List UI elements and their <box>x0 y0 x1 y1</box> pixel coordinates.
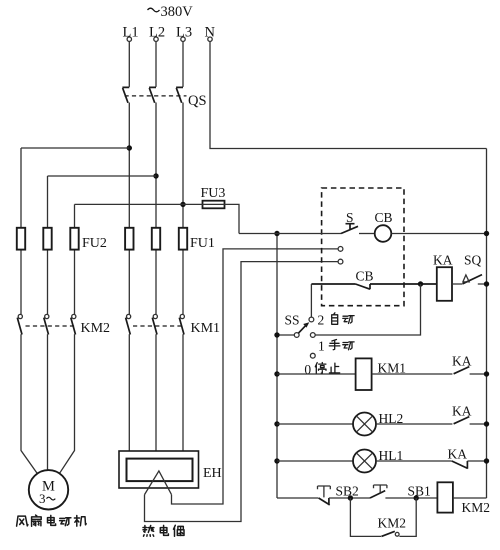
wire tap L2 to left branch <box>48 175 157 177</box>
svg-text:SB2: SB2 <box>336 484 359 499</box>
switch QS pole 1 <box>122 87 129 102</box>
contact KM2 self-hold branch <box>350 498 416 536</box>
wire tap L1 to left branch <box>21 147 129 149</box>
wire control right rail <box>486 149 488 499</box>
contact KA NC <box>452 461 487 469</box>
svg-text:KM2: KM2 <box>81 321 111 336</box>
indicator CB circle <box>359 225 487 242</box>
coil KM2 <box>437 482 453 512</box>
wire thermocouple left lead to CB terminal 2 <box>145 262 339 522</box>
node N <box>205 25 216 42</box>
node dot SQ at right rail <box>484 281 489 286</box>
switch S <box>341 210 358 234</box>
heater EH outer box <box>119 451 199 488</box>
terminal SS position 2 <box>309 317 314 322</box>
contact CB thermostat <box>311 284 437 289</box>
wire thermocouple right lead to CB terminal 1 <box>172 249 339 504</box>
button SB2 stop <box>318 486 331 505</box>
node dot rail KM1 rung <box>274 371 279 376</box>
fuse FU2 b <box>43 228 51 250</box>
label 1 手动 <box>318 339 354 354</box>
wire KM2 coil to right rail <box>453 497 487 499</box>
contactor KM1 main pole 1 <box>126 314 131 334</box>
wire left branch 2 vertical <box>47 176 49 470</box>
node dot KM1 rung right rail <box>484 371 489 376</box>
wire bottom rung left <box>277 497 318 499</box>
wire HL1 rung left <box>277 460 353 462</box>
svg-text:QS: QS <box>188 93 207 109</box>
fuse FU2 c <box>70 228 78 250</box>
svg-text:FU1: FU1 <box>190 236 215 251</box>
switch QS pole 3 <box>176 87 183 102</box>
node dot feed/left rail <box>274 231 279 236</box>
node dot S rung at right rail <box>484 231 489 236</box>
switch QS pole 2 <box>149 87 156 102</box>
dashed enclosure CB controller <box>322 188 404 306</box>
fuse FU1 c <box>179 228 187 250</box>
node dot L3 tap <box>180 202 185 207</box>
svg-text:SB1: SB1 <box>408 484 431 499</box>
fuse FU1 b <box>152 228 160 250</box>
svg-text:L3: L3 <box>176 25 192 41</box>
svg-text:KM1: KM1 <box>378 360 407 375</box>
svg-text:KM2: KM2 <box>462 500 491 515</box>
svg-text:KA: KA <box>448 447 468 462</box>
KM2 gang dashed link <box>26 325 77 327</box>
svg-text:KM1: KM1 <box>191 321 221 336</box>
node dot rail HL2 rung <box>274 421 279 426</box>
button SB1 start <box>370 485 387 498</box>
svg-text:KM2: KM2 <box>378 516 407 531</box>
contactor KM1 main pole 3 <box>179 314 184 334</box>
relay coil KA <box>437 267 452 301</box>
wire left branch 1 vertical <box>21 148 38 474</box>
wire tap L3 to left branch <box>75 203 184 205</box>
node dot self-hold left <box>348 495 353 500</box>
wire HL2 rung right <box>376 423 452 425</box>
wire manual riser <box>315 284 420 335</box>
terminal CB sensor input 2 <box>338 259 343 264</box>
wire control left rail <box>276 234 278 499</box>
svg-text:FU3: FU3 <box>201 186 226 201</box>
node L2 <box>149 25 165 42</box>
node dot rail HL1 rung <box>274 458 279 463</box>
wire L2 vertical <box>155 42 157 452</box>
svg-text:L2: L2 <box>149 25 165 41</box>
wire HL2 rung left <box>277 423 353 425</box>
terminal SS position 0 <box>310 353 315 358</box>
terminal CB sensor input 1 <box>338 247 343 252</box>
wire N down and across to right rail <box>210 42 487 149</box>
svg-text:SQ: SQ <box>464 252 482 267</box>
contactor KM2 main pole 1 <box>17 314 22 334</box>
svg-text:CB: CB <box>356 269 374 284</box>
label 2 自动 <box>318 312 355 327</box>
wire left branch 3 vertical <box>59 204 75 474</box>
terminal SS position 1 <box>310 333 315 338</box>
heater EH inner box <box>127 459 193 482</box>
node dot HL2 rung right rail <box>484 421 489 426</box>
QS gang dashed link <box>125 95 187 97</box>
node dot manual riser junction <box>418 281 423 286</box>
node L1 <box>123 25 139 42</box>
wire SB2 to SB1 <box>329 497 370 499</box>
svg-text:EH: EH <box>203 466 222 481</box>
selector SS pivot and arm <box>294 322 309 337</box>
motor 3~ <box>39 491 55 506</box>
svg-text:2: 2 <box>318 312 325 327</box>
contact KA NO 2 <box>454 417 487 424</box>
wire KM1 rung left <box>277 373 356 375</box>
node dot L2 tap <box>153 173 158 178</box>
label 0 停止 <box>304 362 339 377</box>
KM1 gang dashed link <box>133 325 184 327</box>
contactor KM1 main pole 2 <box>152 314 157 334</box>
label thermocouple (热电偶) <box>143 525 184 536</box>
wire L3 vertical <box>182 42 184 452</box>
contactor KM2 main pole 2 <box>44 314 49 334</box>
label ~380V <box>148 4 194 20</box>
svg-text:0: 0 <box>304 362 311 377</box>
svg-text:3: 3 <box>39 491 46 506</box>
node dot L1 tap <box>127 145 132 150</box>
svg-text:380V: 380V <box>161 4 194 20</box>
label fan motor (风扇电动机) <box>17 515 87 526</box>
limit switch SQ <box>452 275 487 284</box>
node dot self-hold right <box>414 495 419 500</box>
node L3 <box>176 25 192 42</box>
thermocouple probe V <box>145 471 172 495</box>
wire SB1 to KM2 coil <box>385 497 437 499</box>
wire feed to S switch <box>239 233 341 235</box>
wire KM1 rung right <box>372 373 453 375</box>
svg-text:FU2: FU2 <box>82 236 107 251</box>
svg-text:N: N <box>205 25 216 41</box>
contact KA NO 1 <box>454 367 487 374</box>
svg-text:1: 1 <box>318 339 325 354</box>
lamp HL2 <box>353 413 376 436</box>
fuse FU2 a <box>17 228 25 250</box>
contactor KM2 main pole 3 <box>71 314 76 334</box>
wire auto riser <box>310 284 312 317</box>
fuse FU3 <box>201 186 226 209</box>
node dot HL1 rung right rail <box>484 458 489 463</box>
svg-text:CB: CB <box>375 210 393 225</box>
coil KM1 <box>356 358 372 390</box>
lamp HL1 <box>353 450 376 473</box>
wire HL1 rung right <box>376 460 452 462</box>
svg-text:S: S <box>346 210 354 225</box>
fuse FU1 a <box>125 228 133 250</box>
wire FU3 to control feed <box>225 204 240 233</box>
node dot rail SS <box>274 332 279 337</box>
wire rail to SS pivot <box>277 334 294 336</box>
wire L1 vertical <box>128 42 130 452</box>
motor M1 circle <box>29 470 68 509</box>
svg-text:SS: SS <box>285 312 300 327</box>
wire L3 tap to FU3 <box>183 203 203 205</box>
svg-text:KA: KA <box>433 252 453 267</box>
